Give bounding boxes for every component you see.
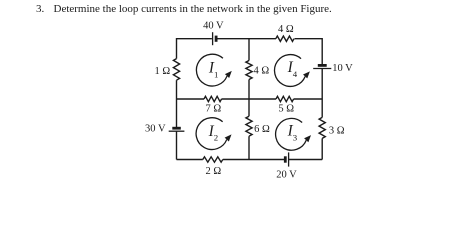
battery V30 30V short thick plate [172, 127, 181, 130]
wire top rail left segment [177, 38, 212, 40]
wire middle vertical segment to mid rail [248, 80, 250, 100]
resistor R6 6ohm zigzag [246, 116, 252, 136]
svg-text:6 Ω: 6 Ω [254, 124, 270, 135]
battery V30 30V long plate [169, 130, 185, 132]
svg-text:4 Ω: 4 Ω [253, 66, 269, 77]
wire left top segment [176, 38, 178, 59]
wire bottom rail center segment [223, 159, 285, 161]
resistor R_4mid 4ohm zigzag [246, 61, 252, 80]
wire right bottom segment [321, 138, 323, 159]
wire left middle segment [176, 80, 178, 127]
svg-text:5 Ω: 5 Ω [278, 104, 294, 115]
svg-text:40 V: 40 V [203, 20, 224, 31]
loop current arrow I1 [196, 54, 231, 86]
svg-text:I1: I1 [208, 60, 219, 80]
wire left bottom segment [176, 131, 178, 159]
svg-text:I3: I3 [287, 123, 298, 143]
svg-text:3 Ω: 3 Ω [329, 125, 345, 136]
svg-text:10 V: 10 V [332, 63, 353, 74]
svg-text:7 Ω: 7 Ω [206, 103, 222, 114]
battery V1 40V short thick plate [215, 36, 218, 42]
wire top rail middle segment [216, 38, 276, 40]
wire middle rail left segment [177, 98, 205, 100]
svg-text:30 V: 30 V [145, 124, 166, 135]
svg-text:20 V: 20 V [276, 170, 297, 181]
battery V10 10V long plate [313, 68, 331, 70]
resistor R7 7ohm zigzag [204, 96, 222, 101]
battery V1 40V long plate [212, 32, 214, 45]
battery V10 10V short thick plate [318, 64, 327, 67]
wire right middle segment [321, 69, 323, 100]
resistor R2 2ohm zigzag [203, 157, 223, 162]
wire middle vertical bottom segment [248, 136, 250, 159]
wire right below mid rail [321, 99, 323, 117]
svg-text:I4: I4 [287, 59, 298, 79]
resistor R1 1ohm zigzag [173, 59, 179, 81]
wire middle rail center segment [222, 98, 277, 100]
svg-text:4 Ω: 4 Ω [278, 24, 294, 35]
battery V20 20V short thick plate [284, 156, 287, 162]
wire middle rail right segment [294, 98, 323, 100]
loop current arrow I2 [196, 118, 231, 150]
resistor R3 3ohm zigzag [319, 117, 325, 138]
wire middle vertical top segment [248, 39, 250, 61]
wire bottom rail left segment [177, 159, 203, 161]
wire top rail right segment [295, 38, 323, 40]
resistor R_4top 4ohm zigzag [276, 36, 294, 41]
svg-text:I2: I2 [208, 123, 219, 143]
wire right top segment [321, 38, 323, 64]
svg-text:1 Ω: 1 Ω [154, 66, 170, 77]
wire bottom rail right segment [289, 159, 323, 161]
battery V20 20V long plate [288, 152, 290, 166]
loop current arrow I3 [276, 118, 311, 150]
wire middle vertical below mid rail [248, 99, 250, 116]
problem statement text [36, 3, 332, 15]
loop current arrow I4 [275, 55, 310, 87]
resistor R5 5ohm zigzag [276, 96, 294, 101]
svg-text:2 Ω: 2 Ω [205, 166, 221, 177]
